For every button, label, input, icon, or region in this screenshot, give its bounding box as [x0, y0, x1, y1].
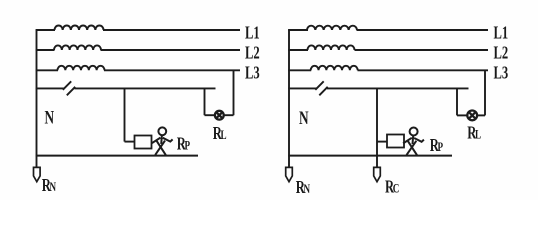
- wire L3 lead left: [36, 69, 58, 71]
- lamp RL right cross: [469, 112, 476, 119]
- wire lamp left lead left: [205, 114, 216, 116]
- lamp RL right circle: [467, 111, 477, 121]
- person RP left arm touching box: [152, 138, 161, 144]
- svg-text:L2: L2: [494, 43, 509, 63]
- wire lamp right lead right: [477, 114, 485, 116]
- switch S2 right blade upper: [315, 81, 323, 90]
- wire lamp right lead left: [224, 114, 234, 116]
- svg-text:L2: L2: [245, 43, 260, 63]
- wire L2 left: [101, 49, 241, 51]
- winding L1 left coil: [55, 25, 104, 30]
- wire lamp rise to L3 right: [484, 70, 486, 115]
- winding L2 left coil: [54, 45, 101, 50]
- wire L3 lead right: [288, 69, 311, 71]
- switch S1 left blade upper: [63, 81, 71, 90]
- person RP left torso: [160, 135, 163, 144]
- wire lamp drop from N left: [204, 88, 206, 115]
- ground electrode RN right: [286, 167, 293, 181]
- person RP right arm touching box: [403, 138, 412, 144]
- wire L1 lead right: [288, 29, 308, 31]
- wire N lead left: [36, 87, 64, 89]
- wire L3 left: [104, 69, 240, 71]
- switch S2 right blade lower: [319, 87, 327, 96]
- person RP left arm right: [163, 138, 173, 142]
- wire earth line left: [36, 155, 198, 157]
- wire lamp left lead right: [457, 114, 468, 116]
- node N bus right: [288, 29, 290, 167]
- svg-text:N: N: [45, 106, 55, 128]
- appliance box right: [387, 135, 404, 148]
- person RP right head: [410, 128, 418, 136]
- ground electrode RC right: [374, 167, 381, 181]
- wire lamp rise to L3 left: [233, 70, 235, 115]
- wire L1 right: [357, 29, 489, 31]
- svg-text:L1: L1: [494, 23, 509, 43]
- winding L1 right coil: [307, 26, 357, 30]
- person RP right leg b: [407, 141, 417, 155]
- wire L3 right: [358, 69, 489, 71]
- wire lamp drop from N right: [456, 88, 458, 115]
- lamp RL left cross: [216, 112, 222, 118]
- wire L1 lead left: [36, 29, 55, 31]
- ground electrode RN left: [34, 167, 41, 181]
- svg-text:L3: L3: [245, 63, 260, 83]
- lamp RL left circle: [215, 111, 224, 120]
- wire person branch horizontal right: [377, 141, 388, 143]
- person RP left leg b: [155, 141, 165, 155]
- wire earth line right: [288, 155, 452, 157]
- person RP left leg a: [156, 141, 166, 156]
- svg-text:L3: L3: [494, 63, 509, 83]
- switch S1 left blade lower: [67, 87, 75, 96]
- person RP right torso: [412, 136, 415, 145]
- wire person branch drop left: [124, 88, 126, 141]
- svg-text:L1: L1: [245, 23, 260, 43]
- winding L3 right coil: [311, 66, 358, 71]
- wire L2 right: [355, 49, 489, 51]
- wire N left: [75, 87, 216, 89]
- svg-text:N: N: [299, 107, 309, 129]
- person RP right arm right: [414, 138, 424, 142]
- wire N lead right: [288, 87, 316, 89]
- wire person branch drop right to RC: [376, 88, 378, 167]
- appliance box left: [135, 136, 152, 149]
- winding L2 right coil: [308, 45, 355, 50]
- wire person branch horizontal left: [125, 141, 136, 143]
- person RP left head: [158, 127, 166, 135]
- node N bus left: [36, 29, 38, 167]
- person RP right leg a: [408, 141, 418, 156]
- wire L2 lead right: [288, 49, 308, 51]
- wire N right: [327, 87, 469, 89]
- winding L3 left coil: [58, 66, 105, 71]
- wire L1 left: [103, 29, 240, 31]
- wire L2 lead left: [36, 49, 55, 51]
